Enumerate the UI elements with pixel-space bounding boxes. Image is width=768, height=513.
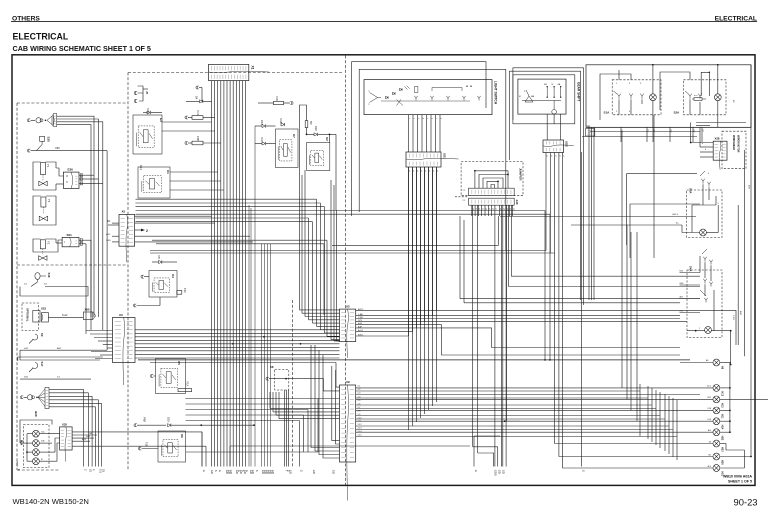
relay K1 [138, 167, 170, 198]
svg-text:Y-R1: Y-R1 [732, 315, 734, 321]
ECU box E36 [63, 172, 79, 188]
svg-text:K5: K5 [177, 361, 181, 365]
svg-text:SHEET 1 OF 5: SHEET 1 OF 5 [728, 480, 752, 484]
svg-text:D13: D13 [146, 109, 150, 114]
H24 left bus [27, 433, 33, 435]
svg-text:g3: g3 [481, 208, 483, 210]
svg-text:p1: p1 [554, 155, 556, 157]
J6 wires [20, 378, 91, 380]
OPTIONAL dashed box [22, 303, 39, 331]
svg-text:D12: D12 [260, 120, 264, 125]
svg-text:X40: X40 [515, 200, 519, 205]
svg-text:S2A: S2A [674, 111, 681, 115]
light switch diodes [386, 96, 389, 98]
svg-text:CAB WIRING SCHEMATIC SHEET 1 O: CAB WIRING SCHEMATIC SHEET 1 OF 5 [13, 44, 151, 53]
wires Y3 loop [33, 203, 56, 225]
svg-text:F4C: F4C [183, 288, 187, 293]
light switch pin stubs [408, 115, 410, 152]
right margin vertical [750, 65, 752, 457]
svg-text:H13: H13 [721, 403, 724, 408]
svg-text:K6: K6 [180, 434, 184, 438]
lamp H13 [713, 396, 720, 403]
lamp H24-2 [33, 440, 40, 447]
svg-text:A1F: A1F [670, 130, 673, 133]
X8 dashed box [275, 369, 289, 390]
X9 left feeds from right verticals [332, 366, 340, 441]
svg-text:4: 4 [422, 118, 424, 119]
S2A contacts [689, 96, 691, 99]
F1B stub [138, 447, 141, 450]
S2A lamp [714, 94, 721, 101]
svg-text:D17: D17 [260, 138, 264, 143]
svg-text:90-23: 90-23 [734, 497, 758, 508]
S4A internal verticals [704, 262, 706, 278]
svg-text:F1B: F1B [145, 442, 149, 447]
svg-text:GDS: GDS [494, 470, 498, 476]
lamp H21 [713, 465, 720, 472]
connector X23 [33, 311, 40, 323]
svg-text:B-R: B-R [680, 271, 684, 273]
X35 right wires [72, 431, 202, 433]
X35 left wires [52, 433, 60, 435]
svg-text:g7: g7 [495, 208, 497, 210]
jumper dashed box [461, 161, 523, 195]
lamp H24-4 [33, 458, 40, 465]
X2 wires going far right [356, 310, 736, 345]
S2A resistor [694, 98, 702, 101]
svg-text:H21: H21 [721, 472, 724, 477]
solenoid Y1 circuit [33, 162, 41, 179]
svg-text:S-A2: S-A2 [62, 314, 68, 317]
svg-text:S1A: S1A [604, 111, 611, 115]
gear shift box [518, 79, 566, 114]
svg-text:g9: g9 [503, 208, 505, 210]
svg-text:7: 7 [435, 118, 437, 119]
svg-text:H23: H23 [721, 447, 724, 452]
fuse F3C [274, 101, 284, 104]
switch J6 [33, 363, 38, 369]
svg-text:A3C: A3C [739, 311, 742, 316]
bottom long horizontal [186, 451, 304, 453]
svg-text:G: G [202, 470, 206, 472]
fuse F4C [177, 291, 182, 295]
svg-text:X35: X35 [62, 422, 67, 426]
svg-text:XD1: XD1 [443, 153, 447, 159]
lamp H22 [713, 429, 720, 436]
S3A internal wiring [692, 204, 716, 206]
X3 right wires [135, 329, 340, 331]
diode D4 on feed wire [201, 94, 203, 101]
svg-text:S17: S17 [40, 362, 44, 367]
X1 wire drops [211, 81, 213, 467]
svg-text:8: 8 [440, 118, 442, 119]
X23-X60 wire [48, 316, 83, 318]
svg-text:1: 1 [408, 118, 410, 119]
svg-text:F4B: F4B [196, 136, 200, 141]
svg-text:g8: g8 [499, 208, 501, 210]
long bus under X3 [138, 359, 690, 361]
X5 left wires [112, 222, 119, 224]
small connector stack left of panel [586, 129, 595, 137]
windshield wiper motor dashed box [722, 131, 746, 169]
svg-text:g5: g5 [488, 208, 490, 210]
K5 K6 output wires [186, 398, 340, 400]
switch S4A dashed box [687, 270, 722, 338]
svg-text:Y1: Y1 [46, 164, 50, 168]
svg-text:X1: X1 [251, 66, 255, 70]
wiper wires [696, 122, 746, 124]
connector XD1 [406, 152, 441, 167]
connector X9 [340, 385, 356, 462]
S4A lamp [705, 327, 712, 334]
svg-text:EE: EE [89, 469, 92, 473]
svg-text:5: 5 [426, 118, 428, 119]
switch box S01 [62, 237, 79, 246]
svg-text:X5: X5 [122, 210, 126, 214]
X3 left wires staircase [86, 330, 113, 332]
svg-text:F3C: F3C [275, 97, 279, 102]
svg-text:p1: p1 [562, 155, 564, 157]
svg-text:H20: H20 [721, 460, 724, 465]
bottom corner links [473, 447, 498, 467]
svg-text:S9: S9 [40, 333, 44, 337]
K2 riser wires [300, 105, 307, 170]
XD1 wire drops [408, 167, 410, 430]
X8 drops [284, 390, 286, 467]
svg-text:K4: K4 [171, 274, 175, 278]
connector X60 [83, 312, 92, 320]
svg-text:S16: S16 [47, 273, 51, 278]
svg-text:D5: D5 [157, 256, 161, 260]
S9 wires [20, 349, 107, 351]
X8 wire to X9 [286, 379, 340, 391]
svg-text:D16: D16 [314, 126, 318, 131]
svg-text:3: 3 [417, 118, 419, 119]
svg-text:ELECTRICAL: ELECTRICAL [13, 32, 69, 42]
K4 stubs [141, 275, 144, 278]
svg-text:XD2: XD2 [565, 141, 569, 147]
svg-text:K2: K2 [325, 137, 329, 141]
X2 jog wires to right [356, 325, 680, 355]
svg-text:X8: X8 [270, 365, 274, 369]
svg-text:B-R: B-R [748, 185, 750, 189]
svg-text:P6B: P6B [143, 417, 147, 422]
coil Y3 [41, 197, 46, 207]
svg-text:Y2: Y2 [47, 241, 51, 245]
svg-text:g6: g6 [491, 208, 493, 210]
stub above D4 [196, 86, 199, 89]
left harness dashed box [17, 103, 128, 470]
S4A upper contacts [704, 259, 706, 262]
gear shift wrap wires [510, 71, 581, 300]
relay E4 [133, 115, 162, 154]
E36 left wires [56, 168, 63, 176]
S2A wiring [689, 99, 691, 114]
connector X35 [60, 427, 73, 450]
svg-text:E4: E4 [159, 118, 163, 122]
jumper mid stub [455, 196, 469, 198]
svg-text:S: S [255, 470, 259, 472]
svg-text:G: G [218, 470, 222, 472]
jumper long drops [472, 205, 474, 447]
bundle D turndown corners [316, 199, 318, 310]
bottom earth stub E [16, 461, 18, 466]
svg-text:J7: J7 [145, 91, 149, 95]
coil Y1 [41, 163, 46, 175]
gear shift lamp [552, 110, 557, 115]
gear shift drops [546, 114, 548, 140]
diode D16 [314, 133, 317, 136]
lamp H14 [713, 418, 720, 425]
sheet arrow from X5 [135, 229, 141, 231]
wires Y1 to E36 [33, 179, 56, 190]
svg-text:X60: X60 [85, 308, 90, 312]
svg-text:GD: GD [289, 470, 293, 474]
S1A wiring [618, 99, 620, 114]
svg-text:F1A: F1A [186, 382, 190, 387]
svg-text:p1: p1 [546, 155, 548, 157]
diode D18 [281, 123, 284, 126]
upper-right hub corners to S4A [511, 205, 700, 276]
svg-text:GD: GD [332, 470, 336, 474]
svg-text:H14: H14 [721, 425, 724, 430]
header rule [11, 21, 757, 23]
connector X5 [119, 214, 135, 246]
S16 wire loop [20, 287, 88, 297]
XD2 drops [545, 153, 547, 251]
svg-text:D18: D18 [279, 119, 283, 124]
light switch contacts [415, 98, 417, 100]
horn top wires [57, 116, 94, 317]
switch S25 [40, 136, 45, 141]
connector X3 [113, 318, 136, 363]
XD1 to X2 riser wires [408, 167, 410, 336]
X9 right runs [356, 387, 713, 389]
svg-text:X: X [66, 180, 68, 184]
svg-text:GD: GD [251, 470, 255, 474]
svg-text:2: 2 [413, 118, 415, 119]
svg-text:G: G [300, 470, 304, 472]
switch S1A dashed box [612, 80, 661, 115]
svg-text:O: O [66, 174, 68, 178]
svg-text:H11: H11 [721, 414, 724, 419]
E36 right wires with stubs [79, 174, 85, 176]
svg-text:S: S [214, 470, 218, 472]
switch S25 wire V60 [31, 150, 108, 152]
S1A contacts [618, 96, 620, 99]
panel drop long verticals [581, 152, 583, 467]
svg-text:E: E [17, 469, 21, 471]
svg-text:X3: X3 [119, 313, 123, 317]
svg-text:GD: GD [498, 470, 502, 474]
lamp H11 [713, 407, 720, 414]
svg-text:4R: 4R [544, 84, 547, 86]
solenoid Y2 circuit [33, 239, 40, 247]
svg-text:2-B1: 2-B1 [106, 240, 111, 242]
switch S2A dashed box [684, 80, 727, 115]
svg-text:S25: S25 [47, 137, 51, 143]
horn assembly bottom [20, 396, 23, 399]
long verticals to bottom stubs [248, 205, 250, 467]
lamp H12 [713, 385, 720, 392]
X9 bottom pin corner feeds [311, 345, 340, 448]
gear shift outer box [513, 75, 575, 124]
fan connector H29 [38, 389, 45, 407]
svg-text:WB10 0006 A02A: WB10 0006 A02A [723, 475, 752, 479]
switch S3A dashed box [687, 190, 723, 238]
mid horizontal pair to XD2 drops [150, 250, 546, 252]
bundle E horizontals [152, 239, 327, 241]
svg-text:B2: B2 [702, 130, 704, 132]
diode D13 [147, 111, 150, 114]
svg-text:G: G [582, 470, 586, 472]
lamp H24-3 [33, 449, 40, 456]
work light box H24 dashed [23, 425, 49, 468]
diode on K4 [159, 260, 162, 263]
switch panel bottom buses [586, 126, 751, 128]
switch S9 [33, 334, 38, 340]
jumper top strip [469, 188, 515, 196]
svg-text:A1F: A1F [693, 130, 696, 133]
svg-text:GD: GD [312, 470, 316, 474]
E4 right wires [162, 121, 212, 123]
svg-text:K1: K1 [166, 170, 170, 174]
connector XD2 [543, 140, 564, 153]
XD2 deep drops to lamps [555, 253, 713, 444]
svg-text:GD: GD [502, 470, 506, 474]
svg-text:g4: g4 [485, 208, 487, 210]
second bus into X9 [150, 362, 336, 364]
svg-text:G: G [474, 470, 478, 472]
S3A feed wires [676, 188, 687, 212]
svg-text:S01: S01 [67, 233, 73, 237]
svg-text:B1: B1 [647, 130, 649, 132]
svg-text:Y3: Y3 [47, 199, 51, 203]
svg-text:E-S: E-S [99, 469, 102, 473]
valve Y2 [39, 256, 47, 261]
connector X2 [340, 309, 356, 342]
lamp H24-1 [33, 430, 40, 437]
svg-text:G41.5: G41.5 [672, 214, 679, 216]
X9 left feed corners below X8 [269, 392, 271, 408]
lamp H9 [713, 359, 720, 366]
svg-text:6: 6 [431, 118, 433, 119]
valve Y3 [39, 216, 47, 221]
jumper drops [471, 205, 473, 216]
lamp H20 [713, 453, 720, 460]
svg-text:LIGHT SWITCH: LIGHT SWITCH [494, 81, 498, 105]
svg-text:X2: X2 [346, 305, 350, 309]
diode D17 [262, 142, 265, 145]
relay K5 [156, 359, 186, 394]
X2 left feed verticals [299, 170, 301, 310]
svg-text:GD: GD [271, 470, 275, 474]
svg-text:OPTIONAL: OPTIONAL [26, 308, 30, 322]
S01 right wires with stubs [79, 239, 85, 241]
S01 left wires [56, 242, 62, 244]
svg-text:H29: H29 [34, 411, 38, 417]
speaker/horn assembly top [27, 119, 30, 122]
fuse F1A [178, 389, 192, 392]
svg-text:V60: V60 [55, 146, 60, 150]
diode D12 [262, 124, 265, 127]
H29 wires right [49, 388, 83, 390]
divider switch S16 [35, 273, 40, 280]
panel drop labels [620, 127, 622, 142]
svg-text:p1: p1 [559, 155, 561, 157]
svg-text:F7A: F7A [196, 111, 200, 116]
fan connector X-horn-top [52, 115, 54, 127]
svg-text:D19: D19 [167, 417, 171, 422]
fuse F7A [185, 116, 188, 119]
svg-text:WINDSHIELD: WINDSHIELD [732, 135, 735, 150]
connector X1 [209, 64, 249, 80]
svg-text:D14: D14 [139, 165, 143, 170]
bundle D mid horizontals from X5 [136, 198, 317, 200]
svg-text:K7: K7 [292, 134, 296, 138]
S4A input wires [680, 272, 701, 274]
svg-text:WB140-2N WB150-2N: WB140-2N WB150-2N [13, 497, 89, 506]
jumper bottom strip [469, 198, 515, 205]
svg-text:GD: GD [210, 470, 214, 474]
lamp column right bus [720, 387, 730, 389]
svg-text:WIPER MOTOR: WIPER MOTOR [737, 135, 740, 153]
middle harness dashed border [128, 56, 345, 486]
panel sub-drop verticals [588, 127, 590, 300]
svg-text:JUMPER: JUMPER [519, 168, 523, 181]
relay K7 [276, 129, 299, 168]
svg-text:E36: E36 [68, 168, 74, 172]
solenoid Y3 circuit [33, 196, 41, 203]
fuse F4B [185, 141, 188, 144]
relay K6 [158, 431, 186, 462]
svg-text:p1: p1 [550, 155, 552, 157]
valve Y1 [39, 181, 47, 186]
S4A inner contacts [704, 281, 706, 284]
relay K4 [149, 271, 177, 298]
S4A right risers [730, 331, 732, 365]
svg-text:A-V: A-V [708, 465, 712, 468]
S3A contacts [702, 181, 704, 184]
svg-text:S3A: S3A [689, 188, 693, 193]
lamp H23 [713, 440, 720, 447]
svg-text:2: 2 [146, 229, 148, 233]
X5 right wires [135, 215, 212, 217]
svg-text:g2: g2 [478, 208, 480, 210]
connector X38 [713, 141, 727, 160]
svg-text:GD: GD [229, 470, 233, 474]
coil Y2 [40, 240, 45, 249]
svg-text:GEAR SHIFT: GEAR SHIFT [577, 82, 581, 101]
svg-text:D4: D4 [195, 96, 199, 100]
diode D19 and P6B stub [134, 424, 137, 427]
light switch wrap wires [352, 62, 486, 216]
hub corner left line [332, 216, 498, 245]
svg-text:G: G [245, 470, 249, 472]
jumper loops [475, 171, 508, 188]
resistor R5 [305, 121, 308, 128]
svg-text:X38: X38 [715, 137, 720, 141]
K5 stubs [150, 374, 153, 377]
svg-text:g1: g1 [475, 208, 477, 210]
S3A lamp [700, 229, 707, 236]
switch panel outer box [586, 65, 751, 128]
svg-text:X9: X9 [346, 380, 350, 384]
light switch box [364, 80, 492, 115]
svg-text:H22: H22 [721, 436, 724, 441]
svg-text:X23: X23 [41, 307, 46, 311]
svg-text:H12: H12 [721, 391, 724, 396]
